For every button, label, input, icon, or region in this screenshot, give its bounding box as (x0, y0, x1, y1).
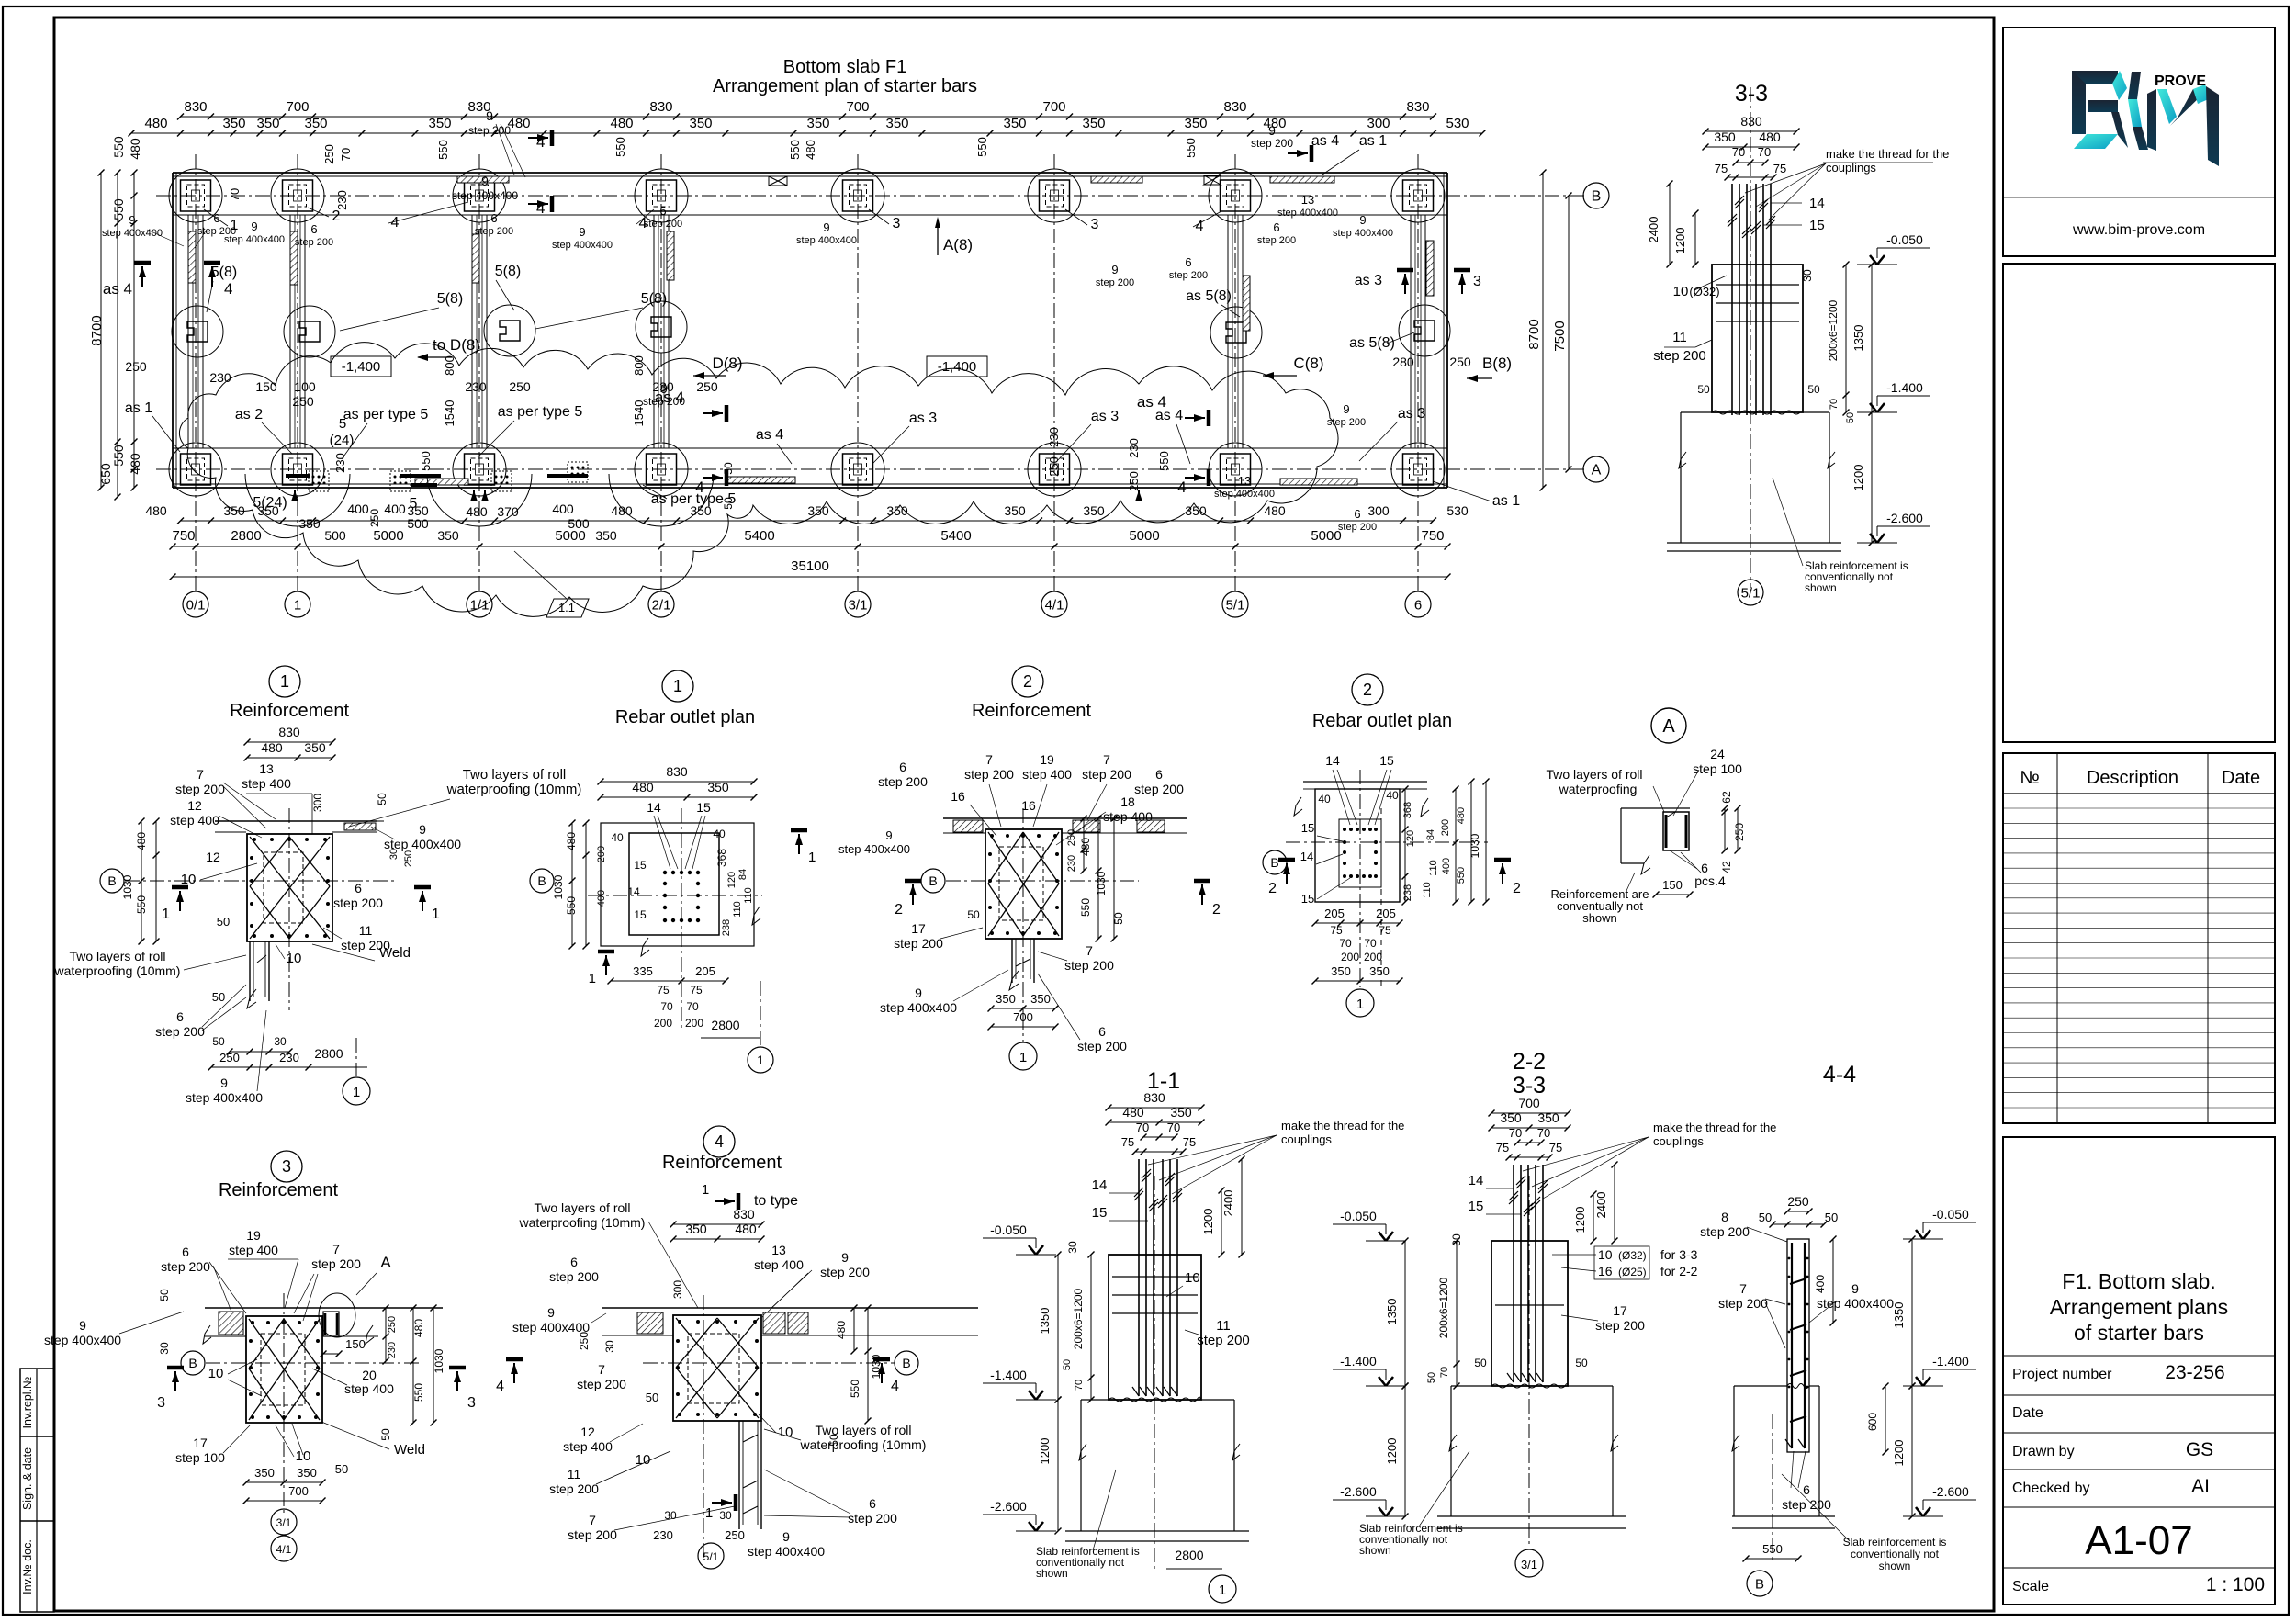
svg-text:7: 7 (1739, 1281, 1747, 1296)
svg-text:3-3: 3-3 (1513, 1073, 1546, 1098)
detail 1r dims top (601, 781, 754, 783)
section 1-1 squiggle (1109, 1397, 1200, 1402)
svg-text:1: 1 (589, 971, 596, 986)
svg-text:step 200: step 200 (644, 219, 682, 230)
svg-text:368: 368 (1402, 802, 1413, 818)
row A beam line (173, 447, 1447, 449)
svg-text:830: 830 (649, 99, 672, 115)
detail 2r break marks (1294, 797, 1302, 816)
svg-text:500: 500 (568, 516, 590, 531)
svg-text:step 200: step 200 (894, 936, 943, 951)
svg-text:150: 150 (255, 379, 277, 394)
svg-text:70: 70 (1339, 937, 1352, 950)
svg-text:step 400: step 400 (754, 1257, 804, 1272)
section 1-1 column box (1109, 1255, 1201, 1400)
svg-text:3/1: 3/1 (1521, 1558, 1537, 1571)
detail 1 pedestal (249, 941, 251, 1001)
bottom bold marks and dotted plates (309, 471, 329, 491)
svg-text:250: 250 (125, 359, 147, 374)
svg-text:step 100: step 100 (1693, 761, 1742, 776)
svg-text:Bottom slab F1: Bottom slab F1 (783, 57, 907, 77)
section 4-4 footing (1734, 1385, 1787, 1387)
svg-text:2: 2 (1513, 881, 1521, 896)
svg-text:40: 40 (611, 831, 624, 844)
svg-text:conventionally not: conventionally not (1851, 1548, 1940, 1560)
svg-text:step 400x400: step 400x400 (748, 1544, 825, 1559)
svg-text:make the thread for the: make the thread for the (1281, 1119, 1404, 1132)
svg-text:-0.050: -0.050 (990, 1222, 1027, 1237)
svg-text:400: 400 (596, 890, 607, 907)
dimension row bottom spans (173, 546, 1447, 547)
svg-text:1: 1 (353, 1085, 360, 1100)
svg-text:9: 9 (481, 174, 489, 188)
svg-text:550: 550 (975, 137, 989, 157)
svg-text:as per type 5: as per type 5 (498, 404, 583, 420)
svg-text:B: B (1755, 1576, 1764, 1592)
svg-text:350: 350 (1500, 1110, 1522, 1125)
svg-text:480: 480 (1079, 838, 1092, 856)
svg-text:1030: 1030 (433, 1348, 445, 1373)
section 3-3 bubble 5/1 (1738, 580, 1763, 605)
right dimension column (1542, 173, 1544, 488)
detail 2r inner rect (1339, 819, 1381, 887)
title block info box (2003, 1137, 2275, 1605)
svg-text:step 200: step 200 (1338, 522, 1377, 533)
detail 4 slab band (602, 1307, 978, 1309)
svg-text:830: 830 (733, 1207, 755, 1222)
section 1-1 bubble (1209, 1575, 1236, 1603)
svg-text:15: 15 (1092, 1205, 1108, 1221)
columns row A (169, 443, 222, 496)
section 1-1 bars (1138, 1159, 1140, 1396)
svg-text:250: 250 (1449, 355, 1471, 369)
svg-text:step 200: step 200 (1782, 1497, 1831, 1512)
svg-text:step 200: step 200 (333, 895, 383, 910)
svg-text:550: 550 (1079, 898, 1092, 917)
svg-text:250: 250 (403, 850, 414, 867)
svg-text:30: 30 (664, 1509, 677, 1522)
svg-text:1030: 1030 (1095, 871, 1108, 895)
svg-text:15: 15 (696, 800, 711, 815)
svg-text:1: 1 (162, 907, 170, 922)
svg-text:550: 550 (111, 136, 126, 158)
svg-text:200x6=1200: 200x6=1200 (1437, 1277, 1450, 1338)
svg-text:15: 15 (634, 908, 647, 921)
svg-text:110: 110 (743, 887, 754, 904)
grid bubble B (1583, 183, 1609, 208)
svg-text:as 3: as 3 (1398, 406, 1425, 422)
detail 4 to type mark (715, 1200, 735, 1202)
svg-text:700: 700 (1518, 1096, 1540, 1110)
svg-text:350: 350 (256, 116, 279, 131)
svg-text:step 200: step 200 (577, 1377, 626, 1391)
svg-text:GS: GS (2186, 1439, 2213, 1460)
detail 1r bottom dims (611, 980, 726, 982)
svg-text:2: 2 (1212, 902, 1221, 918)
cloud loops around bottom columns (245, 474, 350, 526)
svg-text:1.1: 1.1 (558, 601, 575, 614)
svg-text:B: B (902, 1356, 910, 1370)
svg-text:300: 300 (311, 794, 324, 812)
svg-text:9: 9 (220, 1076, 228, 1090)
svg-text:200: 200 (1364, 951, 1382, 963)
svg-text:4/1: 4/1 (276, 1543, 292, 1556)
svg-text:step 200: step 200 (1169, 270, 1208, 281)
svg-text:750: 750 (172, 528, 195, 544)
svg-text:2400: 2400 (1221, 1190, 1235, 1217)
svg-text:20: 20 (362, 1368, 377, 1382)
detail 1 right slab detail (332, 820, 384, 822)
svg-text:3/1: 3/1 (276, 1516, 292, 1529)
svg-text:step 200: step 200 (549, 1269, 599, 1284)
svg-text:350: 350 (996, 992, 1016, 1006)
section 4-4 bubble B (1747, 1571, 1773, 1596)
svg-text:1: 1 (1219, 1583, 1226, 1598)
svg-text:-1.400: -1.400 (1340, 1354, 1377, 1369)
svg-text:step 100: step 100 (175, 1450, 225, 1465)
svg-text:step 200: step 200 (1257, 235, 1296, 246)
svg-text:350: 350 (1537, 1110, 1559, 1125)
svg-text:50: 50 (646, 1391, 658, 1404)
svg-text:8700: 8700 (89, 315, 105, 345)
svg-text:50: 50 (1112, 912, 1125, 925)
svg-text:1: 1 (1356, 997, 1364, 1012)
svg-text:Two layers of roll: Two layers of roll (1546, 767, 1642, 782)
svg-text:200x6=1200: 200x6=1200 (1072, 1288, 1085, 1349)
svg-text:Date: Date (2012, 1405, 2043, 1421)
svg-text:1200: 1200 (1892, 1440, 1906, 1467)
svg-text:1: 1 (702, 1182, 709, 1198)
svg-text:1540: 1540 (632, 400, 646, 427)
svg-text:waterproofing: waterproofing (1559, 782, 1638, 796)
svg-text:-1.400: -1.400 (990, 1368, 1027, 1382)
svg-text:84: 84 (1425, 829, 1436, 840)
svg-text:13: 13 (259, 761, 274, 776)
detail 4 main box (673, 1315, 761, 1421)
svg-text:480: 480 (128, 138, 142, 160)
svg-text:16: 16 (1598, 1264, 1613, 1278)
svg-text:A: A (1662, 716, 1675, 737)
svg-text:400: 400 (552, 501, 574, 516)
svg-text:step 400x400: step 400x400 (44, 1333, 121, 1347)
svg-text:5/1: 5/1 (703, 1550, 719, 1563)
svg-text:waterproofing (10mm): waterproofing (10mm) (446, 782, 582, 797)
section 4-4 column (1787, 1239, 1809, 1452)
svg-text:3: 3 (157, 1395, 165, 1411)
svg-text:Reinforcement: Reinforcement (219, 1180, 339, 1200)
svg-text:step 200: step 200 (568, 1527, 617, 1542)
svg-text:350: 350 (1185, 503, 1207, 518)
svg-text:-1,400: -1,400 (342, 359, 381, 375)
svg-text:230: 230 (652, 379, 674, 394)
svg-text:step 200: step 200 (1082, 767, 1131, 782)
svg-text:16: 16 (951, 789, 965, 804)
svg-text:1: 1 (294, 597, 301, 613)
svg-text:couplings: couplings (1653, 1134, 1704, 1148)
svg-text:10: 10 (778, 1425, 793, 1440)
svg-text:step 400x400: step 400x400 (838, 842, 910, 856)
svg-text:62: 62 (1720, 791, 1733, 804)
svg-text:250: 250 (1047, 456, 1061, 477)
svg-text:15: 15 (1809, 218, 1825, 233)
section 3-3 left dims (1669, 184, 1671, 265)
svg-text:1350: 1350 (1385, 1299, 1399, 1325)
svg-text:make the thread for the: make the thread for the (1826, 147, 1949, 161)
detail 2r bottom dims (1315, 922, 1400, 924)
detail 3 bottom bubbles (271, 1509, 297, 1535)
svg-text:480: 480 (1456, 807, 1467, 824)
detail 1 grid bubble B (100, 869, 124, 893)
detail 1 bubble (269, 666, 300, 697)
rebar strips vertical hatched (188, 231, 196, 283)
svg-text:1: 1 (1019, 1050, 1027, 1065)
left dimension column (133, 173, 135, 488)
svg-text:step 400x400: step 400x400 (796, 235, 857, 246)
detail 1 slab lines (215, 820, 377, 822)
svg-text:5000: 5000 (373, 528, 403, 544)
svg-text:(Ø32): (Ø32) (1689, 285, 1719, 298)
svg-text:350: 350 (806, 116, 829, 131)
svg-text:14: 14 (1325, 753, 1340, 768)
svg-text:11: 11 (1216, 1318, 1231, 1334)
svg-text:350: 350 (1083, 503, 1105, 518)
svg-text:Checked by: Checked by (2012, 1481, 2090, 1496)
svg-text:35100: 35100 (791, 558, 829, 574)
svg-text:550: 550 (419, 451, 433, 471)
svg-text:480: 480 (507, 116, 530, 131)
grid lines vertical (195, 154, 197, 592)
svg-text:4: 4 (891, 1379, 899, 1394)
svg-text:480: 480 (1122, 1105, 1144, 1120)
svg-text:400: 400 (347, 501, 369, 516)
detail 2 section marks (912, 884, 914, 905)
svg-text:550: 550 (849, 1380, 861, 1398)
svg-text:350: 350 (298, 516, 321, 531)
detail 4 section marks (513, 1363, 515, 1383)
svg-text:A1-07: A1-07 (2085, 1518, 2192, 1563)
svg-text:230: 230 (653, 1528, 673, 1542)
detail 3 section marks (174, 1371, 176, 1391)
svg-text:as 1: as 1 (1359, 133, 1387, 149)
svg-text:250: 250 (368, 509, 381, 527)
svg-text:205: 205 (695, 964, 715, 978)
detail 4 right dims (853, 1308, 855, 1351)
svg-text:№: № (2020, 768, 2039, 788)
detail 2r cut marks (1286, 863, 1288, 884)
svg-text:Rebar outlet plan: Rebar outlet plan (615, 707, 755, 727)
section 2-2 bars (1513, 1165, 1514, 1382)
svg-text:6: 6 (355, 881, 362, 895)
detail 3 right dims (385, 1308, 387, 1361)
svg-text:550: 550 (135, 895, 148, 914)
svg-text:350: 350 (297, 1466, 317, 1480)
svg-text:830: 830 (184, 99, 207, 115)
svg-text:10: 10 (208, 1366, 224, 1381)
svg-text:350: 350 (1004, 503, 1026, 518)
svg-text:9: 9 (1111, 263, 1118, 276)
detail 4 dims (673, 1223, 761, 1225)
svg-text:50: 50 (967, 908, 980, 921)
svg-text:23-256: 23-256 (2165, 1362, 2224, 1383)
svg-text:2: 2 (1363, 681, 1372, 699)
svg-text:9: 9 (79, 1318, 86, 1333)
svg-text:205: 205 (1324, 907, 1345, 920)
detail 3 dots (251, 1321, 254, 1324)
svg-text:D(8): D(8) (712, 355, 742, 372)
svg-text:2: 2 (1268, 881, 1277, 896)
section 4-4 centerline (1772, 1414, 1773, 1561)
svg-text:370: 370 (497, 504, 519, 519)
svg-text:AI: AI (2191, 1476, 2210, 1497)
svg-text:250: 250 (1787, 1194, 1809, 1209)
svg-text:550: 550 (613, 137, 627, 157)
svg-text:1: 1 (280, 672, 289, 691)
svg-text:480: 480 (261, 740, 283, 755)
svg-text:350: 350 (1082, 116, 1105, 131)
svg-text:250: 250 (1127, 471, 1141, 491)
detail 2 diagonals (988, 832, 1059, 936)
svg-text:350: 350 (1184, 116, 1207, 131)
grid bubble A (1583, 456, 1609, 482)
svg-text:350: 350 (886, 503, 908, 518)
svg-text:pcs.4: pcs.4 (1694, 873, 1726, 888)
svg-text:1200: 1200 (1038, 1438, 1052, 1465)
svg-text:75: 75 (690, 984, 703, 997)
svg-text:12: 12 (187, 798, 202, 813)
svg-text:350: 350 (428, 116, 451, 131)
svg-text:step 200: step 200 (1134, 782, 1184, 796)
svg-text:42: 42 (1720, 861, 1733, 873)
row B beam line (173, 214, 1447, 216)
svg-text:5(8): 5(8) (641, 291, 667, 307)
svg-text:350: 350 (807, 503, 829, 518)
svg-text:830: 830 (1143, 1090, 1165, 1105)
svg-text:480: 480 (565, 832, 578, 850)
svg-text:waterproofing (10mm): waterproofing (10mm) (800, 1437, 927, 1452)
svg-text:9: 9 (1343, 402, 1349, 416)
svg-text:7500: 7500 (1552, 321, 1568, 351)
section 2-2 column box (1491, 1241, 1568, 1386)
svg-text:830: 830 (278, 725, 300, 739)
svg-text:350: 350 (689, 116, 712, 131)
svg-text:step 400x400: step 400x400 (552, 240, 613, 251)
svg-text:shown: shown (1582, 911, 1617, 925)
svg-text:B: B (929, 873, 937, 888)
section 4-4 squiggle (1787, 1384, 1809, 1389)
detail 1 bottom dims (230, 1051, 289, 1053)
svg-text:350: 350 (1331, 964, 1351, 978)
svg-text:7: 7 (598, 1362, 605, 1377)
elevation boxes -1,400 (331, 356, 391, 377)
svg-text:400: 400 (1441, 858, 1452, 874)
svg-text:as 1: as 1 (125, 400, 152, 416)
rebar strips horizontal on edges (457, 176, 509, 183)
svg-text:step 200: step 200 (1197, 1333, 1250, 1348)
svg-text:9: 9 (915, 986, 922, 1000)
svg-text:step 400x400: step 400x400 (1333, 228, 1393, 239)
bowtie symbol (769, 176, 787, 186)
svg-text:for 3-3: for 3-3 (1660, 1247, 1698, 1262)
svg-text:50: 50 (1426, 1372, 1437, 1383)
svg-text:530: 530 (1446, 503, 1469, 518)
svg-text:step 200: step 200 (1700, 1224, 1750, 1239)
svg-text:Slab reinforcement is: Slab reinforcement is (1843, 1536, 1947, 1549)
svg-text:10: 10 (1598, 1247, 1613, 1262)
title block logo box (2003, 28, 2275, 256)
svg-text:15: 15 (1379, 753, 1394, 768)
svg-text:110: 110 (732, 901, 743, 918)
detail 4 diagonals (676, 1318, 759, 1418)
svg-text:4: 4 (1177, 479, 1186, 496)
svg-text:as 2: as 2 (235, 407, 263, 422)
svg-text:6: 6 (182, 1245, 189, 1259)
svg-text:Date: Date (2222, 768, 2260, 788)
svg-text:480: 480 (128, 453, 142, 475)
svg-text:480: 480 (804, 140, 817, 160)
detail A geometry (1621, 807, 1690, 809)
svg-text:4: 4 (695, 479, 703, 496)
svg-text:480: 480 (412, 1319, 425, 1337)
detail 2 grid bubble B (921, 869, 945, 893)
svg-text:17: 17 (1613, 1303, 1627, 1318)
svg-text:make the thread for the: make the thread for the (1653, 1121, 1776, 1134)
logo BIM (2072, 71, 2086, 134)
svg-text:50: 50 (212, 1035, 225, 1048)
svg-text:350: 350 (254, 1466, 275, 1480)
svg-text:Description: Description (2087, 768, 2178, 788)
svg-text:Rebar outlet plan: Rebar outlet plan (1312, 711, 1452, 731)
svg-text:9: 9 (251, 220, 257, 233)
svg-text:10: 10 (296, 1448, 311, 1464)
svg-text:9: 9 (841, 1250, 849, 1265)
svg-text:120: 120 (1405, 830, 1416, 847)
section 3-3 right dims (1845, 265, 1847, 412)
svg-text:750: 750 (1421, 528, 1444, 544)
svg-text:as 3: as 3 (909, 411, 937, 426)
svg-text:480: 480 (610, 116, 633, 131)
svg-text:14: 14 (647, 800, 661, 815)
detail 1r section marks (605, 955, 607, 975)
cut marks top right (1288, 152, 1308, 154)
svg-text:6: 6 (1414, 597, 1422, 613)
svg-text:6: 6 (1185, 255, 1191, 269)
svg-text:250: 250 (1733, 823, 1746, 841)
svg-text:-2.600: -2.600 (990, 1499, 1027, 1514)
svg-text:250: 250 (725, 1528, 745, 1542)
section 2-2 right dims (1614, 1165, 1615, 1241)
svg-text:step 200: step 200 (468, 124, 511, 137)
svg-text:5(8): 5(8) (211, 265, 237, 280)
svg-text:4: 4 (224, 280, 232, 298)
svg-text:-2.600: -2.600 (1886, 511, 1923, 525)
svg-text:75: 75 (657, 984, 670, 997)
section 2-2 hooks (1507, 1373, 1514, 1382)
svg-text:Reinforcement: Reinforcement (972, 701, 1092, 721)
svg-text:(Ø25): (Ø25) (1618, 1266, 1647, 1278)
svg-text:9: 9 (885, 828, 892, 842)
svg-text:70: 70 (1074, 1380, 1085, 1391)
svg-text:step 200: step 200 (155, 1024, 205, 1039)
svg-text:830: 830 (1740, 114, 1762, 129)
svg-text:50: 50 (1825, 1211, 1838, 1224)
svg-text:830: 830 (666, 764, 688, 779)
svg-text:70: 70 (660, 1000, 673, 1013)
svg-text:as 4: as 4 (756, 427, 783, 443)
svg-text:B: B (1270, 855, 1278, 870)
svg-text:6: 6 (310, 222, 317, 236)
svg-text:4: 4 (536, 133, 545, 151)
svg-text:350: 350 (595, 528, 617, 543)
